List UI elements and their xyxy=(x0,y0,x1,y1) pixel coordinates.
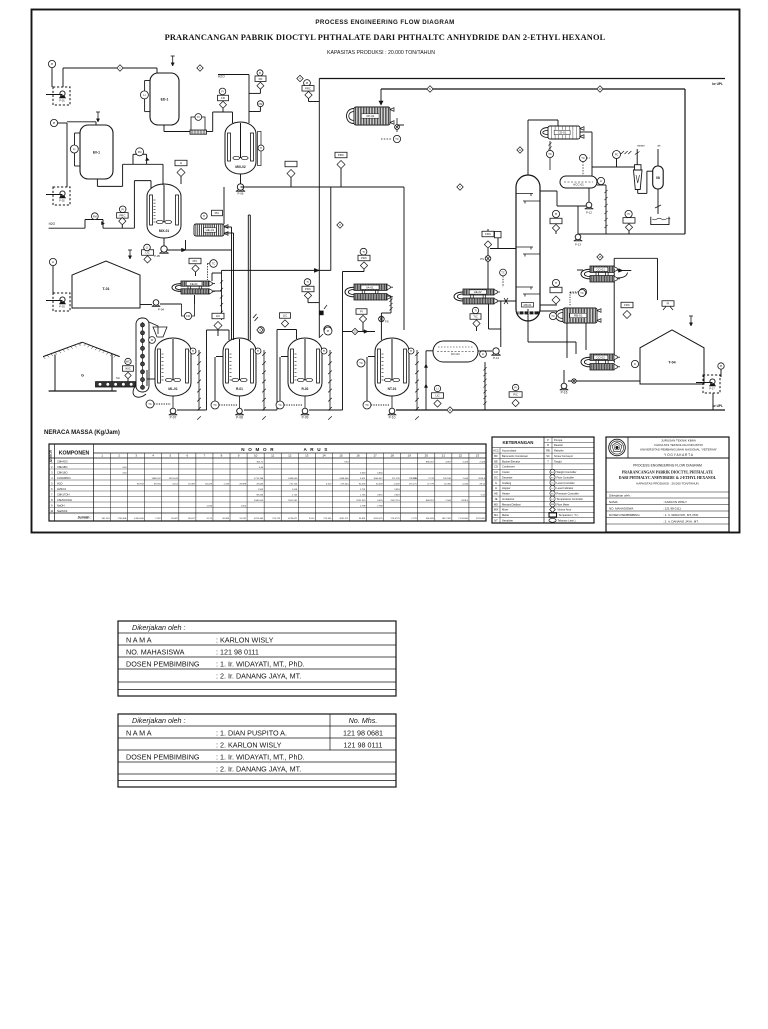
svg-text:PIC: PIC xyxy=(215,211,220,215)
svg-text:LI: LI xyxy=(146,246,148,250)
svg-text:14: 14 xyxy=(322,454,326,458)
svg-text:P-04: P-04 xyxy=(158,308,164,312)
svg-text:Na2SO4: Na2SO4 xyxy=(57,509,68,513)
svg-text:121 98 0111: 121 98 0111 xyxy=(344,740,383,749)
svg-text:PI: PI xyxy=(627,212,630,216)
svg-text:1.765: 1.765 xyxy=(360,494,366,496)
svg-text:Pressure Controller: Pressure Controller xyxy=(557,492,579,496)
svg-text:PRC: PRC xyxy=(361,256,367,260)
svg-text:88.784: 88.784 xyxy=(137,483,144,485)
svg-text:1.503: 1.503 xyxy=(241,505,247,507)
svg-text:TC: TC xyxy=(551,314,555,318)
svg-text:22: 22 xyxy=(459,454,463,458)
svg-text:Level Controller: Level Controller xyxy=(557,481,575,485)
svg-text:HE-02: HE-02 xyxy=(474,290,482,294)
svg-text:121 98 0681: 121 98 0681 xyxy=(343,728,383,737)
svg-text:171.226: 171.226 xyxy=(409,478,418,480)
svg-text:P-16: P-16 xyxy=(561,390,568,394)
svg-text:RB-01: RB-01 xyxy=(574,314,583,318)
svg-text:DOSEN PEMBIMBING: DOSEN PEMBIMBING xyxy=(126,659,200,668)
svg-text:2537.251: 2537.251 xyxy=(391,500,401,502)
svg-text:PRC: PRC xyxy=(338,153,344,157)
svg-text:N A M A: N A M A xyxy=(126,728,152,737)
svg-text:Bucket Elevator: Bucket Elevator xyxy=(502,459,520,463)
svg-text:Cooler: Cooler xyxy=(502,470,510,474)
svg-text:Reboiler: Reboiler xyxy=(554,449,564,453)
svg-text:1714.188: 1714.188 xyxy=(254,478,264,480)
svg-text:23: 23 xyxy=(476,454,480,458)
svg-text:Weight Controller: Weight Controller xyxy=(557,470,577,474)
svg-text:1606.347: 1606.347 xyxy=(373,478,383,480)
svg-text:28.846: 28.846 xyxy=(256,483,263,485)
svg-text:868.267: 868.267 xyxy=(426,461,435,463)
svg-text:2370.443: 2370.443 xyxy=(169,478,179,480)
svg-text:Temperature Controller: Temperature Controller xyxy=(557,497,584,501)
svg-text:PI: PI xyxy=(667,302,670,306)
svg-text:SC: SC xyxy=(546,454,550,458)
svg-text:1088.048: 1088.048 xyxy=(339,478,349,480)
svg-text:T-04: T-04 xyxy=(668,360,675,364)
svg-text:H2O: H2O xyxy=(57,481,63,485)
svg-text:: 2. Ir. DANANG JAYA, MT.: : 2. Ir. DANANG JAYA, MT. xyxy=(216,765,301,774)
svg-text:275.344: 275.344 xyxy=(341,483,350,485)
svg-text:R-02: R-02 xyxy=(302,387,309,391)
svg-text:: 121 98 0111: : 121 98 0111 xyxy=(216,647,259,656)
svg-text:868.267: 868.267 xyxy=(426,500,435,502)
svg-text:LI: LI xyxy=(482,352,484,356)
svg-text:TI: TI xyxy=(323,349,326,353)
svg-text:DC: DC xyxy=(494,475,498,479)
svg-text:TC: TC xyxy=(580,291,584,295)
svg-text:PI: PI xyxy=(306,81,309,85)
svg-text:28.14: 28.14 xyxy=(480,483,486,485)
svg-text:ML-01: ML-01 xyxy=(168,387,177,391)
svg-text:FI: FI xyxy=(259,71,262,75)
svg-text:PRC: PRC xyxy=(305,87,311,91)
svg-text:2.028: 2.028 xyxy=(480,461,486,463)
svg-text:: 121 98 0111: : 121 98 0111 xyxy=(663,507,681,511)
svg-text:RB: RB xyxy=(546,449,550,453)
svg-text:TC: TC xyxy=(501,271,505,275)
svg-text:P-08: P-08 xyxy=(236,415,243,419)
svg-text:7.044: 7.044 xyxy=(445,500,451,502)
svg-text:PI: PI xyxy=(53,121,56,125)
svg-text:2446.914: 2446.914 xyxy=(254,500,264,502)
svg-text:CD-01: CD-01 xyxy=(558,131,567,135)
svg-text:: KARLON WISLY: : KARLON WISLY xyxy=(216,635,274,644)
svg-text:1.186: 1.186 xyxy=(224,483,230,485)
svg-text:: 1. Ir. WIDAYATI, MT., PhD.: : 1. Ir. WIDAYATI, MT., PhD. xyxy=(216,659,305,668)
svg-text:PRARANCANGAN PABRIK DIOCTYL P: PRARANCANGAN PABRIK DIOCTYL PHTHALATE DA… xyxy=(165,33,606,42)
svg-text:LI: LI xyxy=(143,93,145,97)
svg-text:LI: LI xyxy=(73,147,75,151)
svg-text:PI: PI xyxy=(197,115,200,119)
svg-text:FM: FM xyxy=(93,214,97,218)
svg-text:18: 18 xyxy=(390,454,394,458)
svg-text:air: air xyxy=(657,144,660,148)
svg-text:TC: TC xyxy=(148,402,152,406)
svg-text:4231.271: 4231.271 xyxy=(339,518,349,520)
svg-text:FM: FM xyxy=(551,504,554,506)
svg-text:30.348: 30.348 xyxy=(376,483,383,485)
svg-text:Menara Distilasi: Menara Distilasi xyxy=(502,502,521,506)
svg-text:0.045: 0.045 xyxy=(462,483,468,485)
svg-text:Condenser: Condenser xyxy=(502,465,515,469)
svg-text:2024.8: 2024.8 xyxy=(478,478,485,480)
svg-text:32.456: 32.456 xyxy=(444,483,451,485)
svg-text:Barometric Condenser: Barometric Condenser xyxy=(502,454,528,458)
svg-text:: 2. KARLON WISLY: : 2. KARLON WISLY xyxy=(216,740,282,749)
svg-text:TI: TI xyxy=(474,309,477,313)
svg-text:R: R xyxy=(547,443,549,447)
svg-text:PI: PI xyxy=(360,310,363,314)
svg-text:: 2. Ir. DANANG JAYA, MT.: : 2. Ir. DANANG JAYA, MT. xyxy=(663,520,699,524)
svg-text:KAPASITAS PRODUKSI : 20.000 T: KAPASITAS PRODUKSI : 20.000 TON/TAHUN xyxy=(327,50,435,56)
svg-text:CO: CO xyxy=(494,470,498,474)
svg-text:2428.0: 2428.0 xyxy=(461,500,468,502)
svg-text:31.232: 31.232 xyxy=(239,518,246,520)
svg-text:MIX: MIX xyxy=(494,508,499,512)
svg-text:CD: CD xyxy=(494,465,498,469)
svg-text:MD-01: MD-01 xyxy=(524,303,532,307)
svg-text:TI: TI xyxy=(410,349,413,353)
svg-text:P-13: P-13 xyxy=(575,243,581,247)
svg-text:28.989: 28.989 xyxy=(222,518,229,520)
svg-text:P-03: P-03 xyxy=(59,305,65,309)
svg-text:C8H16O: C8H16O xyxy=(57,470,67,474)
svg-text:PI: PI xyxy=(121,207,124,211)
svg-text:P-11: P-11 xyxy=(493,356,499,360)
svg-text:11: 11 xyxy=(271,454,274,458)
svg-text:Reactor: Reactor xyxy=(554,443,563,447)
svg-text:P-06: P-06 xyxy=(238,192,244,196)
svg-text:2.818: 2.818 xyxy=(394,494,400,496)
svg-text:2129.681: 2129.681 xyxy=(476,518,486,520)
svg-text:PIC: PIC xyxy=(513,393,518,397)
svg-text:PRARANCANGAN PABRIK DIOCTYL PH: PRARANCANGAN PABRIK DIOCTYL PHTHALATE xyxy=(622,471,714,475)
svg-text:0.025: 0.025 xyxy=(377,500,383,502)
svg-text:FC: FC xyxy=(551,477,554,479)
svg-text:3.613: 3.613 xyxy=(326,483,332,485)
svg-text:275.344: 275.344 xyxy=(323,518,332,520)
svg-text:LI: LI xyxy=(180,161,183,165)
svg-text:19: 19 xyxy=(408,454,412,458)
svg-text:HE: HE xyxy=(494,492,498,496)
svg-text:171.226: 171.226 xyxy=(392,478,401,480)
svg-text:NO. MAHASISWA: NO. MAHASISWA xyxy=(609,507,633,511)
svg-text:3.613: 3.613 xyxy=(309,518,315,520)
svg-text:: 2. Ir. DANANG JAYA, MT.: : 2. Ir. DANANG JAYA, MT. xyxy=(216,672,301,681)
svg-text:21: 21 xyxy=(442,454,446,458)
svg-text:7.044: 7.044 xyxy=(462,478,468,480)
svg-text:2521.261: 2521.261 xyxy=(356,500,366,502)
svg-text:1.503: 1.503 xyxy=(258,489,264,491)
svg-text:FR: FR xyxy=(221,96,225,100)
svg-text:VP-01: VP-01 xyxy=(366,114,375,118)
svg-text:84.028: 84.028 xyxy=(205,483,212,485)
svg-text:275.726: 275.726 xyxy=(289,483,298,485)
svg-text:18.487: 18.487 xyxy=(171,518,178,520)
svg-text:ED-1: ED-1 xyxy=(161,97,169,101)
svg-text:C24H38O4: C24H38O4 xyxy=(57,476,71,480)
svg-text:PRC: PRC xyxy=(305,287,311,291)
svg-text:360.71: 360.71 xyxy=(256,461,263,463)
svg-text:1.618: 1.618 xyxy=(292,489,298,491)
svg-text:FS: FS xyxy=(385,320,389,324)
svg-text:Gudang: Gudang xyxy=(502,481,512,485)
svg-text:4.867: 4.867 xyxy=(445,461,451,463)
svg-text:TI: TI xyxy=(203,214,206,218)
svg-text:MD: MD xyxy=(494,502,498,506)
svg-text:H2O: H2O xyxy=(218,75,225,79)
svg-text:JE: JE xyxy=(494,497,497,501)
svg-text:FM: FM xyxy=(186,314,190,318)
svg-text:27.778: 27.778 xyxy=(427,483,434,485)
svg-text:TC: TC xyxy=(359,361,363,365)
svg-text:3.660: 3.660 xyxy=(377,472,383,474)
svg-text:Melter: Melter xyxy=(502,513,509,517)
svg-text:WC: WC xyxy=(126,360,130,364)
svg-text:NAMA: NAMA xyxy=(609,500,618,504)
svg-text:ACC-01: ACC-01 xyxy=(573,182,584,186)
svg-text:PI: PI xyxy=(555,212,558,216)
svg-text:DOSEN PEMBIMBING: DOSEN PEMBIMBING xyxy=(126,752,200,761)
svg-text:Hopper: Hopper xyxy=(502,486,511,490)
svg-text:12: 12 xyxy=(288,454,292,458)
svg-text:PI: PI xyxy=(327,329,330,333)
svg-text:P-01: P-01 xyxy=(59,99,65,103)
svg-text:DC-01: DC-01 xyxy=(451,352,460,356)
svg-text:NT-01: NT-01 xyxy=(388,387,397,391)
svg-text:4218.079: 4218.079 xyxy=(373,518,383,520)
svg-text:: 1. Ir. WIDAYATI, MT, PhD: : 1. Ir. WIDAYATI, MT, PhD xyxy=(663,513,699,517)
svg-text:TC: TC xyxy=(581,156,585,160)
svg-text:G: G xyxy=(495,481,497,485)
svg-text:E0-1: E0-1 xyxy=(93,150,100,154)
svg-text:2521.261: 2521.261 xyxy=(288,500,298,502)
svg-text:P-10: P-10 xyxy=(389,415,396,419)
svg-text:PI: PI xyxy=(514,386,517,390)
svg-text:FAKULTAS TEKNOLOGI INDUSTRI: FAKULTAS TEKNOLOGI INDUSTRI xyxy=(654,443,702,447)
svg-text:MA: MA xyxy=(494,513,498,517)
svg-text:LIC: LIC xyxy=(283,314,287,318)
svg-text:10: 10 xyxy=(254,454,258,458)
svg-text:7.124.060: 7.124.060 xyxy=(458,518,469,520)
svg-text:CO-02: CO-02 xyxy=(597,355,606,359)
svg-text:H2O: H2O xyxy=(49,222,56,226)
svg-text:: 1. Ir. WIDAYATI, MT., PhD.: : 1. Ir. WIDAYATI, MT., PhD. xyxy=(216,752,305,761)
svg-text:: 1. DIAN PUSPITO A.: : 1. DIAN PUSPITO A. xyxy=(216,728,287,737)
svg-text:C8H18O: C8H18O xyxy=(57,465,67,469)
svg-text:BC: BC xyxy=(494,454,498,458)
svg-text:ACC: ACC xyxy=(493,449,499,453)
svg-text:Heater: Heater xyxy=(502,492,510,496)
svg-text:4223.486: 4223.486 xyxy=(254,518,264,520)
svg-text:92.436: 92.436 xyxy=(359,483,366,485)
svg-text:TI: TI xyxy=(555,281,558,285)
svg-text:JURUSAN TEKNIK KIMIA: JURUSAN TEKNIK KIMIA xyxy=(661,438,696,442)
svg-text:1088.012: 1088.012 xyxy=(152,478,162,480)
svg-text:LIC: LIC xyxy=(435,394,439,398)
svg-text:N A M A: N A M A xyxy=(126,635,152,644)
svg-text:KETERANGAN: KETERANGAN xyxy=(503,440,534,445)
svg-text:Tekanan ( atm.): Tekanan ( atm.) xyxy=(558,518,576,522)
svg-text:Pompa: Pompa xyxy=(554,438,563,442)
svg-text:PS: PS xyxy=(480,257,484,261)
svg-text:R-01: R-01 xyxy=(236,387,243,391)
svg-text:17: 17 xyxy=(373,454,377,458)
svg-text:TI: TI xyxy=(362,250,365,254)
svg-text:85.627: 85.627 xyxy=(188,518,195,520)
svg-text:175.175: 175.175 xyxy=(409,483,418,485)
svg-text:1753.836: 1753.836 xyxy=(118,518,128,520)
svg-text:TC: TC xyxy=(395,137,399,141)
svg-text:H2SO4: H2SO4 xyxy=(57,487,66,491)
svg-text:174.4175: 174.4175 xyxy=(391,518,401,520)
svg-text:PI: PI xyxy=(720,364,723,368)
svg-text:DARI PHTHALYC ANHYDRIDE & 2-ET: DARI PHTHALYC ANHYDRIDE & 2-ETHYL HEXANO… xyxy=(619,476,717,480)
svg-text:ke UPL: ke UPL xyxy=(712,82,723,86)
svg-text:NO. MAHASISWA: NO. MAHASISWA xyxy=(126,647,185,656)
svg-text:FM: FM xyxy=(259,102,263,106)
svg-text:MIX-02: MIX-02 xyxy=(235,165,246,169)
svg-text:: KARLON WISLY: : KARLON WISLY xyxy=(663,500,687,504)
svg-text:NT: NT xyxy=(494,518,498,522)
svg-text:1057.88: 1057.88 xyxy=(443,478,452,480)
svg-text:Flow Meter: Flow Meter xyxy=(557,502,570,506)
svg-text:NERACA MASSA (Kg/Jam): NERACA MASSA (Kg/Jam) xyxy=(44,430,120,436)
svg-text:KOMPONEN: KOMPONEN xyxy=(59,451,90,457)
svg-text:15: 15 xyxy=(339,454,343,458)
svg-text:KAPASITAS PRODUKSI : 20.000: KAPASITAS PRODUKSI : 20.000 TON/TAHUN xyxy=(636,482,698,486)
svg-text:1088.048: 1088.048 xyxy=(288,478,298,480)
svg-text:T-01: T-01 xyxy=(102,287,109,291)
svg-text:FE-01: FE-01 xyxy=(190,282,198,286)
svg-text:PC: PC xyxy=(551,493,554,495)
svg-text:-0.000: -0.000 xyxy=(393,483,400,485)
svg-text:28.989: 28.989 xyxy=(239,483,246,485)
svg-text:2.322: 2.322 xyxy=(155,518,161,520)
svg-text:TC: TC xyxy=(213,403,217,407)
svg-text:Dikerjakan oleh :: Dikerjakan oleh : xyxy=(132,623,186,632)
svg-text:TI: TI xyxy=(257,349,260,353)
svg-text:361.163: 361.163 xyxy=(102,518,111,520)
svg-text:BE: BE xyxy=(494,459,498,463)
svg-text:P-09: P-09 xyxy=(302,415,309,419)
svg-text:LI: LI xyxy=(436,387,438,391)
svg-text:2.818: 2.818 xyxy=(394,489,400,491)
svg-text:366.483: 366.483 xyxy=(426,518,435,520)
svg-text:P-12: P-12 xyxy=(586,211,592,215)
svg-text:C8H17OH: C8H17OH xyxy=(57,492,69,496)
svg-text:SC: SC xyxy=(116,376,120,380)
svg-text:G: G xyxy=(81,374,84,378)
svg-text:1.186: 1.186 xyxy=(206,505,212,507)
svg-text:2.428: 2.428 xyxy=(462,461,468,463)
svg-text:P: P xyxy=(547,438,549,442)
svg-text:0.916: 0.916 xyxy=(377,494,383,496)
svg-text:3.123: 3.123 xyxy=(206,518,212,520)
svg-text:2.788: 2.788 xyxy=(377,505,383,507)
svg-text:A R U S: A R U S xyxy=(303,447,328,452)
svg-text:TI: TI xyxy=(306,280,309,284)
svg-text:TI: TI xyxy=(260,146,263,150)
svg-text:steam: steam xyxy=(637,144,645,148)
svg-text:FRC: FRC xyxy=(485,232,491,236)
svg-text:CO-01: CO-01 xyxy=(597,267,606,271)
svg-text:LI: LI xyxy=(52,260,54,264)
svg-text:2.788: 2.788 xyxy=(360,505,366,507)
svg-text:13: 13 xyxy=(305,454,309,458)
svg-text:No. Mhs.: No. Mhs. xyxy=(349,716,378,725)
svg-text:88.784: 88.784 xyxy=(154,483,161,485)
svg-text:16: 16 xyxy=(356,454,360,458)
svg-text:N O M O R: N O M O R xyxy=(241,447,275,452)
svg-text:Screw Conveyor: Screw Conveyor xyxy=(554,454,573,458)
svg-text:PROCESS ENGINEERING FLOW DIAGR: PROCESS ENGINEERING FLOW DIAGRAM xyxy=(315,19,454,26)
svg-text:Tangki: Tangki xyxy=(554,459,562,463)
svg-text:Accumulator: Accumulator xyxy=(502,449,517,453)
svg-text:MIX-01: MIX-01 xyxy=(159,229,170,233)
svg-text:275.726: 275.726 xyxy=(272,518,281,520)
svg-text:P-05: P-05 xyxy=(154,254,160,258)
svg-text:DOSEN PEMBIMBING: DOSEN PEMBIMBING xyxy=(609,513,640,517)
svg-text:3.660: 3.660 xyxy=(360,472,366,474)
svg-text:Jet Ejector: Jet Ejector xyxy=(502,497,514,501)
svg-text:2.731: 2.731 xyxy=(360,489,366,491)
svg-text:2.778: 2.778 xyxy=(428,478,434,480)
svg-text:08: 08 xyxy=(656,176,660,180)
svg-text:TC: TC xyxy=(278,403,282,407)
svg-text:UNIVERSITAS PEMBANGUNAN NASION: UNIVERSITAS PEMBANGUNAN NASIONAL “VETERA… xyxy=(640,447,717,451)
svg-text:HE-01: HE-01 xyxy=(206,228,215,232)
svg-text:PROCESS ENGINEERING FLOW DIAGR: PROCESS ENGINEERING FLOW DIAGRAM xyxy=(633,464,702,468)
svg-text:TC: TC xyxy=(212,262,216,266)
svg-text:WIC: WIC xyxy=(125,367,130,371)
svg-text:TI: TI xyxy=(192,349,195,353)
svg-text:C8H4O3: C8H4O3 xyxy=(57,459,68,463)
svg-text:89.036: 89.036 xyxy=(256,494,263,496)
svg-text:4.161: 4.161 xyxy=(172,483,178,485)
svg-text:ke UPL: ke UPL xyxy=(712,404,723,408)
svg-text:TIC: TIC xyxy=(473,315,478,319)
svg-text:WC: WC xyxy=(551,472,555,474)
svg-text:NaOH: NaOH xyxy=(57,503,65,507)
svg-text:PIC: PIC xyxy=(193,259,198,263)
svg-text:4218.871: 4218.871 xyxy=(288,518,298,520)
svg-text:Netralizer: Netralizer xyxy=(502,518,513,522)
svg-text:P-07: P-07 xyxy=(170,415,177,419)
svg-text:H: H xyxy=(495,486,497,490)
svg-text:Dikerjakan oleh :: Dikerjakan oleh : xyxy=(609,494,632,498)
svg-text:TC: TC xyxy=(551,499,554,501)
svg-text:LI: LI xyxy=(600,179,602,183)
svg-text:Decanter: Decanter xyxy=(502,475,513,479)
svg-text:Temperatur ( °C ): Temperatur ( °C ) xyxy=(559,513,579,517)
svg-text:FI: FI xyxy=(221,90,224,94)
svg-text:LC: LC xyxy=(551,483,554,485)
svg-text:Y O G Y A K A R T A: Y O G Y A K A R T A xyxy=(664,453,694,457)
svg-text:PI: PI xyxy=(51,62,54,66)
svg-text:FM: FM xyxy=(138,150,142,154)
svg-text:TC: TC xyxy=(548,152,552,156)
svg-text:35.891: 35.891 xyxy=(359,518,366,520)
svg-text:PC: PC xyxy=(615,153,619,157)
svg-text:PRC: PRC xyxy=(119,214,125,218)
svg-text:3.621: 3.621 xyxy=(360,478,366,480)
svg-text:P-17: P-17 xyxy=(709,387,715,391)
svg-text:TC: TC xyxy=(365,403,369,407)
